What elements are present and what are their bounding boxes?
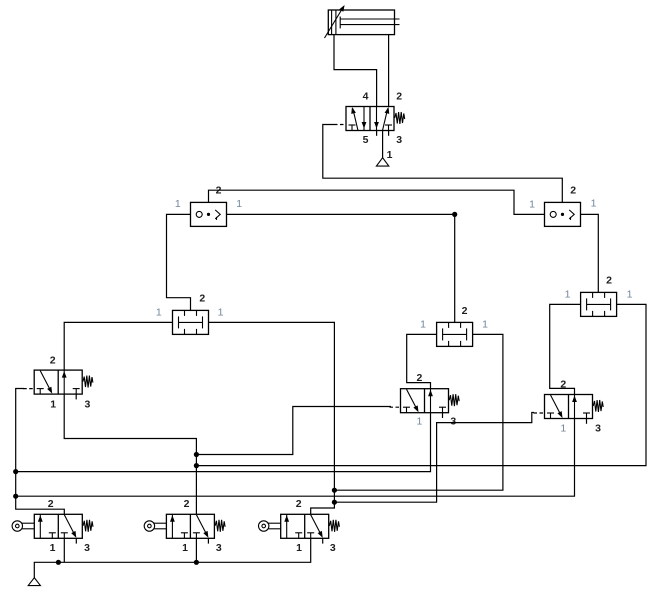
wire cylinder left port to V0 port 4 <box>334 35 377 107</box>
cylinder A1 (double acting with adjustable cushioning) <box>325 4 400 38</box>
svg-text:1: 1 <box>529 199 535 211</box>
3/2-way roller valve V6 (normally closed) <box>259 514 340 543</box>
svg-text:2: 2 <box>606 275 612 287</box>
wire V5 port 1 to supply line <box>195 538 197 562</box>
wire AND3 left port 1 to V3 port 2 <box>550 304 581 394</box>
svg-text:1: 1 <box>627 288 633 300</box>
wire S2 right port 1 to AND3 port 2 <box>581 214 599 292</box>
svg-text:3: 3 <box>84 398 90 410</box>
wire AND2 left port 1 to V2 port 2 <box>407 334 437 388</box>
two-pressure valve AND2 (AND) <box>437 322 473 346</box>
svg-text:3: 3 <box>595 423 601 435</box>
two-pressure valve AND1 (AND) <box>173 310 209 334</box>
wire V1 pilot down to V4 port 2 <box>16 389 65 515</box>
wire V4 port 1 to supply line <box>63 538 65 562</box>
svg-text:2: 2 <box>462 305 468 317</box>
wire cylinder right port to V0 port 2 <box>388 35 390 107</box>
svg-text:3: 3 <box>396 134 402 146</box>
shuttle valve S2 (OR) <box>545 202 581 226</box>
3/2-way valve V1 (pilot/spring, normally open) <box>23 370 93 399</box>
junction V5 output to AND3 branch <box>194 463 199 468</box>
supply line from source to V4, V5, V6 port 1 <box>34 538 310 577</box>
svg-text:3: 3 <box>450 416 456 428</box>
svg-text:1: 1 <box>156 307 162 319</box>
3/2-way valve V3 (pilot/spring, normally open) <box>534 395 604 424</box>
svg-text:2: 2 <box>184 498 190 510</box>
junction on supply line <box>56 560 61 565</box>
wire V2 pilot to V5 output junction <box>196 407 391 455</box>
svg-text:1: 1 <box>387 149 393 161</box>
svg-text:1: 1 <box>420 319 426 331</box>
wire S1 right port 1 to AND2 port 2 <box>227 214 455 322</box>
wire V2 port 1 to V4 output junction <box>16 413 431 472</box>
wire V3 port 1 to V4 output junction <box>16 419 575 497</box>
svg-text:2: 2 <box>570 185 576 197</box>
wire AND2 right port 1 to V6 output junction <box>334 334 503 490</box>
3/2-way valve V2 (pilot/spring, normally open) <box>390 389 460 418</box>
junction at S1-AND2 wire corner <box>452 212 457 217</box>
wire V1 port 1 down to V5 port 2 <box>64 394 196 514</box>
svg-text:3: 3 <box>216 542 222 554</box>
two-pressure valve AND3 (AND) <box>581 292 617 316</box>
port 5 stub of V0 <box>376 131 378 136</box>
svg-text:1: 1 <box>50 398 56 410</box>
svg-text:1: 1 <box>565 288 571 300</box>
junction V6 output to V3 pilot branch <box>332 500 337 505</box>
svg-text:4: 4 <box>363 91 369 103</box>
svg-text:1: 1 <box>182 542 188 554</box>
junction V5 port 1 on supply line <box>194 560 199 565</box>
3/2-way roller valve V4 (normally closed) <box>12 514 93 543</box>
wire V0 pilot to shuttle S2 port 2 <box>323 125 563 203</box>
3/2-way roller valve V5 (normally closed) <box>144 514 225 543</box>
wire AND1 right port 1 down to V6 port 2 <box>209 322 335 514</box>
svg-text:3: 3 <box>84 542 90 554</box>
junction V4 output to V2 branch <box>13 469 18 474</box>
svg-text:2: 2 <box>48 498 54 510</box>
svg-text:2: 2 <box>296 498 302 510</box>
junction V5 output to V2 pilot branch <box>194 452 199 457</box>
svg-text:1: 1 <box>482 319 488 331</box>
wire V3 pilot to V6 output junction <box>334 413 534 503</box>
svg-text:1: 1 <box>560 423 566 435</box>
port 3 stub of V0 <box>388 131 390 136</box>
junction V6 output to AND2 branch <box>332 488 337 493</box>
svg-text:1: 1 <box>175 198 181 210</box>
svg-text:1: 1 <box>591 198 597 210</box>
svg-text:5: 5 <box>363 134 369 146</box>
svg-text:2: 2 <box>199 293 205 305</box>
svg-text:3: 3 <box>330 542 336 554</box>
svg-text:2: 2 <box>396 91 402 103</box>
5/2-way valve V0 (pilot operated, spring return) <box>334 106 405 130</box>
air supply source (bottom left) <box>28 578 40 586</box>
wire S1 port 2 to S2 left port 1 <box>209 190 545 214</box>
wire AND3 right port 1 to V5 output junction <box>196 304 646 465</box>
svg-text:1: 1 <box>218 307 224 319</box>
wire AND1 left port 1 to V1 port 2 <box>64 322 172 370</box>
junction V4 output to V3 branch <box>13 494 18 499</box>
shuttle valve S1 (OR) <box>191 202 227 226</box>
svg-text:1: 1 <box>296 542 302 554</box>
air supply source for V0 (port 1) <box>376 131 388 167</box>
svg-text:1: 1 <box>50 542 56 554</box>
svg-text:1: 1 <box>236 198 242 210</box>
wire S1 left port 1 to AND1 port 2 <box>167 214 191 310</box>
svg-text:2: 2 <box>50 355 56 367</box>
svg-text:1: 1 <box>416 416 422 428</box>
